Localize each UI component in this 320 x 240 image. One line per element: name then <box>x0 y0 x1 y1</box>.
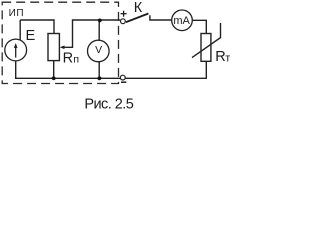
svg-text:mA: mA <box>173 15 190 27</box>
svg-text:К: К <box>134 0 143 16</box>
svg-text:п: п <box>73 54 79 66</box>
svg-text:R: R <box>63 50 73 66</box>
svg-text:ИП: ИП <box>9 8 25 19</box>
svg-text:т: т <box>225 52 230 64</box>
svg-text:V: V <box>95 44 102 56</box>
svg-text:E: E <box>26 28 36 44</box>
svg-text:Рис. 2.5: Рис. 2.5 <box>84 97 133 113</box>
svg-text:R: R <box>215 49 225 65</box>
